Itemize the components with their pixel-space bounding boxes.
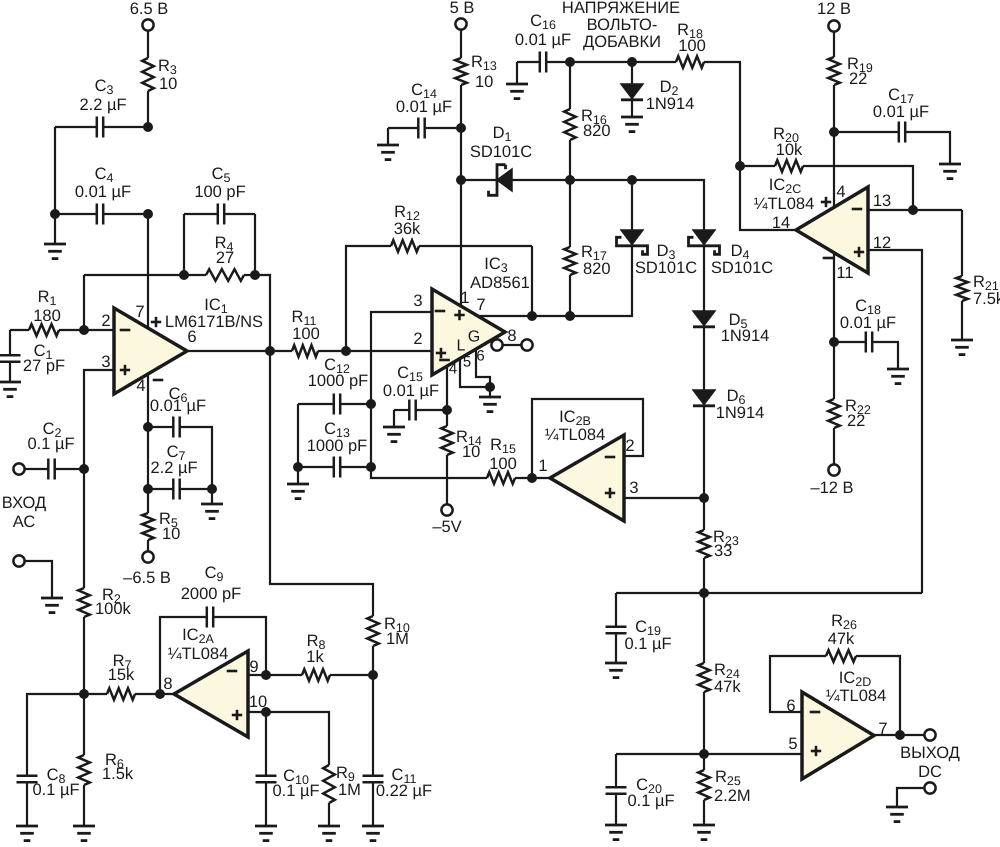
- diode D2 1N914: [621, 62, 694, 117]
- capacitor C16: [515, 12, 571, 73]
- ground: [0, 382, 21, 397]
- power terminal -12V: [810, 464, 853, 497]
- svg-text:ВХОД: ВХОД: [2, 494, 46, 512]
- capacitor C1: [0, 330, 65, 382]
- svg-text:1N914: 1N914: [716, 404, 765, 422]
- svg-text:47k: 47k: [828, 630, 855, 648]
- wire IC2C pin4: [833, 132, 835, 208]
- power terminal 6.5V: [130, 0, 169, 31]
- svg-text:9: 9: [249, 658, 258, 676]
- ground: [16, 826, 38, 841]
- resistor R18: [632, 21, 740, 166]
- svg-text:11: 11: [836, 264, 853, 282]
- wire IC2A pin9: [248, 674, 302, 676]
- wire D row: [570, 179, 632, 181]
- resistor R25: [698, 754, 750, 825]
- resistor R21: [956, 210, 1000, 340]
- svg-text:6.5 В: 6.5 В: [130, 0, 169, 18]
- node: [699, 588, 709, 598]
- wire IC2C pin11: [833, 253, 835, 342]
- node: [143, 122, 153, 132]
- resistor R23: [698, 498, 739, 593]
- capacitor C8: [17, 694, 85, 826]
- resistor R19: [828, 55, 873, 88]
- svg-text:7: 7: [476, 296, 485, 314]
- wire IC2D out: [874, 734, 925, 736]
- wire: [54, 127, 56, 214]
- svg-text:3: 3: [413, 292, 422, 310]
- resistor R2: [78, 469, 131, 694]
- node: [627, 57, 637, 67]
- svg-text:G: G: [468, 329, 480, 346]
- node: [341, 346, 351, 356]
- svg-text:3: 3: [101, 353, 110, 371]
- capacitor C5: [184, 165, 255, 275]
- wire IC1 pin2: [84, 329, 114, 331]
- capacitor C7: [148, 443, 212, 500]
- node: [366, 399, 376, 409]
- wire: [531, 246, 533, 316]
- node: [368, 670, 378, 680]
- resistor R11: [292, 308, 346, 357]
- node: [527, 311, 537, 321]
- ground: [362, 826, 384, 841]
- svg-text:L: L: [457, 338, 466, 355]
- ground: [951, 340, 973, 355]
- capacitor C2: [24, 420, 84, 480]
- node: [895, 730, 905, 740]
- resistor R10: [270, 351, 410, 675]
- wire: [147, 30, 149, 58]
- svg-text:10k: 10k: [776, 141, 803, 159]
- node: [79, 325, 89, 335]
- capacitor C18: [834, 297, 898, 369]
- node: [261, 670, 271, 680]
- wire IC2A pin10: [248, 711, 266, 713]
- wire IC3 pins 5 6 gnd: [460, 350, 501, 412]
- node: [261, 707, 271, 717]
- op-amp IC2A: [163, 626, 267, 737]
- ground: [383, 410, 405, 442]
- resistor R4: [184, 234, 255, 281]
- diode D6 1N914: [693, 387, 764, 498]
- svg-text:1N914: 1N914: [646, 95, 695, 113]
- resistor R7: [84, 652, 174, 700]
- svg-text:1M: 1M: [386, 630, 409, 648]
- wire: [460, 128, 462, 180]
- svg-text:0.01 µF: 0.01 µF: [75, 183, 131, 201]
- resistor R13: [455, 53, 497, 91]
- capacitor C13: [298, 420, 371, 478]
- terminal gnd out: [886, 782, 936, 821]
- svg-text:0.1 µF: 0.1 µF: [272, 782, 319, 800]
- capacitor C12: [298, 356, 371, 415]
- ground: [255, 826, 277, 841]
- ground: [605, 663, 627, 678]
- wire: [255, 275, 270, 351]
- op-amp IC3 AD8561: [413, 255, 529, 378]
- wire: [833, 85, 835, 132]
- capacitor C4: [55, 165, 148, 225]
- wire: [147, 427, 149, 489]
- resistor R1: [10, 288, 84, 336]
- node: [565, 311, 575, 321]
- svg-text:5: 5: [788, 735, 797, 753]
- svg-text:LM6171B/NS: LM6171B/NS: [165, 313, 263, 331]
- diode D5 1N914: [693, 311, 769, 390]
- node: [442, 405, 452, 415]
- svg-text:1k: 1k: [306, 648, 324, 666]
- capacitor C6: [148, 385, 212, 489]
- svg-text:0.1 µF: 0.1 µF: [27, 435, 74, 453]
- resistor R6: [78, 694, 134, 826]
- svg-text:4: 4: [449, 361, 457, 378]
- node: [293, 462, 376, 472]
- svg-text:7: 7: [135, 303, 144, 321]
- svg-text:10: 10: [159, 75, 177, 93]
- svg-text:1M: 1M: [338, 781, 361, 799]
- svg-text:1000 pF: 1000 pF: [307, 437, 368, 455]
- node: [456, 123, 466, 133]
- node: [179, 270, 260, 280]
- svg-text:1N914: 1N914: [721, 327, 770, 345]
- ground: [605, 825, 627, 840]
- node: [735, 161, 745, 171]
- svg-text:АС: АС: [13, 513, 36, 531]
- svg-text:0.01 µF: 0.01 µF: [396, 98, 452, 116]
- svg-text:8: 8: [507, 327, 516, 345]
- node: [829, 337, 839, 347]
- svg-text:5 В: 5 В: [450, 0, 475, 17]
- capacitor C9: [160, 564, 266, 694]
- svg-text:4: 4: [136, 377, 145, 395]
- node: [699, 749, 709, 759]
- svg-text:¼TL084: ¼TL084: [754, 195, 815, 213]
- power terminal -6.5V: [123, 551, 171, 587]
- wire: [632, 180, 704, 230]
- svg-text:6: 6: [476, 348, 484, 365]
- svg-text:0.01 µF: 0.01 µF: [840, 314, 896, 332]
- ground: [887, 369, 909, 384]
- op-amp IC2D: [786, 669, 887, 779]
- capacitor C10: [256, 712, 320, 826]
- svg-text:¼TL084: ¼TL084: [168, 645, 229, 663]
- svg-text:100k: 100k: [95, 600, 132, 618]
- svg-text:SD101C: SD101C: [635, 259, 697, 277]
- svg-text:SD101C: SD101C: [711, 259, 773, 277]
- wire IC2C pin12: [868, 250, 922, 593]
- svg-text:0.22 µF: 0.22 µF: [376, 782, 432, 800]
- wire IC3 pin4: [446, 365, 448, 410]
- resistor R12: [346, 203, 532, 351]
- svg-text:0.1 µF: 0.1 µF: [627, 792, 674, 810]
- svg-text:33: 33: [714, 542, 732, 560]
- ground: [939, 164, 961, 179]
- capacitor C3: [55, 77, 148, 138]
- node: [155, 689, 165, 699]
- ground: [44, 214, 66, 259]
- svg-text:2.2M: 2.2M: [714, 787, 751, 805]
- capacitor C19: [606, 593, 672, 663]
- resistor R24: [698, 593, 741, 754]
- svg-text:100: 100: [678, 37, 706, 55]
- resistor R22: [828, 342, 871, 465]
- ground: [506, 62, 528, 99]
- svg-text:100: 100: [292, 325, 320, 343]
- power terminal 12V: [817, 0, 851, 32]
- label напряжение: [562, 0, 680, 51]
- node: [699, 493, 709, 503]
- resistor R9: [266, 712, 361, 826]
- svg-text:22: 22: [847, 412, 865, 430]
- wire IC3 pin2: [346, 350, 432, 352]
- svg-text:–12 В: –12 В: [810, 479, 853, 497]
- capacitor C17: [834, 86, 950, 164]
- svg-text:2: 2: [101, 312, 110, 330]
- svg-text:6: 6: [187, 328, 196, 346]
- svg-text:27: 27: [216, 249, 234, 267]
- svg-text:13: 13: [873, 192, 891, 210]
- svg-text:ДОБАВКИ: ДОБАВКИ: [583, 33, 661, 51]
- node: [456, 175, 466, 185]
- power terminal 5V: [450, 0, 475, 30]
- wire IC1 pin7 rail: [147, 214, 149, 330]
- terminal ВХОД: [2, 463, 46, 531]
- wire: [616, 753, 802, 755]
- svg-text:SD101C: SD101C: [470, 143, 532, 161]
- capacitor C20: [606, 754, 675, 825]
- node: [143, 484, 217, 494]
- node: [79, 689, 89, 699]
- svg-text:2.2 µF: 2.2 µF: [79, 96, 126, 114]
- svg-text:ВЫХОД: ВЫХОД: [900, 744, 960, 762]
- resistor R3: [142, 57, 177, 93]
- svg-text:12 В: 12 В: [817, 0, 851, 18]
- svg-text:0.01 µF: 0.01 µF: [383, 382, 439, 400]
- wire IC1 out: [187, 350, 292, 352]
- terminal gnd input: [13, 555, 63, 612]
- svg-text:36k: 36k: [394, 220, 421, 238]
- node: [829, 127, 839, 137]
- ground: [287, 467, 309, 499]
- wire: [570, 61, 632, 63]
- wire IC3 pin7: [477, 315, 570, 317]
- resistor R8: [302, 632, 373, 681]
- svg-text:0.01 µF: 0.01 µF: [515, 31, 571, 49]
- svg-text:47k: 47k: [714, 678, 741, 696]
- node: [627, 175, 637, 185]
- svg-text:10: 10: [475, 73, 493, 91]
- ground: [693, 825, 715, 840]
- diode D4 SD101C: [689, 230, 774, 311]
- capacitor C15: [383, 364, 447, 421]
- wire: [147, 91, 149, 127]
- power terminal -5V: [432, 504, 461, 536]
- resistor R26 feedback: [770, 612, 900, 735]
- op-amp IC1: [101, 296, 263, 395]
- svg-text:7.5k: 7.5k: [973, 290, 1000, 308]
- wire: [833, 31, 835, 57]
- ground: [318, 826, 340, 841]
- svg-text:820: 820: [583, 260, 611, 278]
- node: [565, 57, 575, 67]
- node: [908, 205, 918, 215]
- svg-text:¼TL084: ¼TL084: [826, 687, 887, 705]
- wire: [298, 404, 371, 467]
- ground: [377, 128, 399, 160]
- svg-text:1: 1: [460, 289, 469, 307]
- svg-text:10: 10: [462, 443, 480, 461]
- svg-text:–5V: –5V: [432, 518, 461, 536]
- ground: [73, 826, 95, 841]
- svg-text:8: 8: [163, 675, 172, 693]
- svg-text:15k: 15k: [108, 666, 135, 684]
- wire IC3 pin1: [460, 180, 462, 306]
- diode D3 SD101C: [570, 180, 697, 316]
- svg-text:¼TL084: ¼TL084: [545, 426, 606, 444]
- svg-text:ВОЛЬТО-: ВОЛЬТО-: [587, 16, 658, 34]
- op-amp IC2B: [538, 408, 638, 521]
- svg-text:0.01 µF: 0.01 µF: [873, 103, 929, 121]
- svg-text:0.1 µF: 0.1 µF: [624, 635, 671, 653]
- svg-text:5: 5: [463, 354, 471, 371]
- ground: [201, 489, 223, 519]
- node: [565, 175, 575, 185]
- output terminal: [900, 729, 960, 781]
- svg-text:DC: DC: [918, 763, 942, 781]
- node: [527, 473, 537, 483]
- svg-text:2: 2: [625, 437, 634, 455]
- svg-text:2000 pF: 2000 pF: [181, 585, 242, 603]
- output terminals pin8: [491, 327, 532, 351]
- svg-text:22: 22: [849, 70, 867, 88]
- svg-text:2.2 µF: 2.2 µF: [150, 459, 197, 477]
- svg-text:AD8561: AD8561: [470, 274, 530, 292]
- wire: [460, 85, 462, 128]
- svg-text:100: 100: [489, 455, 517, 473]
- wire IC3 pin3: [371, 312, 432, 404]
- svg-text:820: 820: [583, 122, 611, 140]
- wire IC2B feedback: [532, 399, 643, 478]
- svg-text:4: 4: [836, 183, 845, 201]
- capacitor C14: [388, 81, 461, 139]
- resistor R5: [142, 489, 180, 552]
- wire R15 row: [371, 467, 487, 478]
- svg-text:0.1 µF: 0.1 µF: [32, 781, 79, 799]
- node: [79, 464, 89, 474]
- svg-text:100 pF: 100 pF: [194, 183, 245, 201]
- svg-text:1.5k: 1.5k: [102, 765, 134, 783]
- node: [50, 209, 153, 219]
- capacitor C11: [363, 675, 433, 826]
- resistor R14: [441, 410, 482, 505]
- resistor R20: [740, 125, 913, 210]
- svg-text:180: 180: [33, 307, 61, 325]
- wire IC1 pin3: [84, 370, 114, 469]
- wire IC1 pin4: [147, 374, 149, 427]
- node: [265, 346, 275, 356]
- wire IC2C out: [740, 166, 796, 230]
- wire: [460, 29, 462, 58]
- svg-text:10: 10: [162, 525, 180, 543]
- node: [143, 422, 153, 432]
- op-amp IC2C: [754, 176, 891, 282]
- svg-text:0.01 µF: 0.01 µF: [150, 397, 206, 415]
- wire IC2B pin3: [624, 497, 704, 499]
- svg-text:1000 pF: 1000 pF: [308, 372, 369, 390]
- svg-text:3: 3: [629, 479, 638, 497]
- wire feedback: [84, 275, 184, 330]
- wire IC2C pin13: [868, 209, 962, 211]
- wire node row: [616, 592, 922, 594]
- resistor R15: [487, 436, 550, 484]
- resistor R16: [564, 62, 610, 180]
- resistor R17: [564, 180, 610, 316]
- diode D1 SD101C: [461, 124, 570, 195]
- svg-text:1: 1: [538, 457, 547, 475]
- svg-text:27 pF: 27 pF: [23, 357, 65, 375]
- ground: [621, 117, 643, 132]
- svg-text:НАПРЯЖЕНИЕ: НАПРЯЖЕНИЕ: [562, 0, 680, 17]
- svg-text:–6.5 В: –6.5 В: [123, 569, 171, 587]
- svg-text:2: 2: [413, 330, 422, 348]
